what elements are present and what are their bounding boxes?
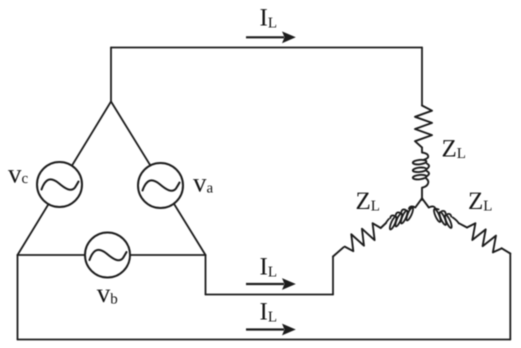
wire bottom line [18,339,511,341]
wire delta BR corner drop [205,255,207,295]
arrow I_L bottom [246,324,296,336]
wire left side down [17,255,19,340]
svg-text:va: va [193,168,214,198]
resistor Z_L right branch [463,221,506,256]
wire right coil to resistor [459,223,467,227]
arrow I_L middle [246,278,296,290]
svg-text:vc: vc [8,159,29,189]
svg-text:ZL: ZL [356,188,380,215]
svg-text:vb: vb [97,278,118,308]
wire apex to top line [110,48,112,102]
source v_a [138,163,183,208]
wire middle line [206,294,334,296]
inductor L left branch [384,204,420,231]
wire left coil to resistor [381,223,386,228]
inductor L top branch [413,148,429,199]
source v_c [37,162,82,207]
svg-text:ZL: ZL [468,188,492,215]
wire delta left leg [18,102,112,256]
wire right side up [509,254,511,340]
svg-text:ZL: ZL [442,135,466,162]
source v_b [85,233,130,278]
wire right resistor to corner [502,248,511,253]
resistor Z_L top branch [415,106,432,148]
svg-text:IL: IL [260,299,278,326]
svg-text:IL: IL [260,4,278,31]
node N wye center [415,198,429,207]
svg-text:IL: IL [260,254,278,281]
wire top right drop [421,48,423,106]
resistor Z_L left branch [341,221,384,254]
arrow I_L top [246,31,296,43]
wire delta right leg [111,102,206,256]
inductor L right branch [425,204,461,231]
wire left branch riser [332,257,334,295]
wire left resistor to corner [333,247,344,256]
wire top line [111,47,422,49]
wire delta bottom edge [18,254,206,256]
